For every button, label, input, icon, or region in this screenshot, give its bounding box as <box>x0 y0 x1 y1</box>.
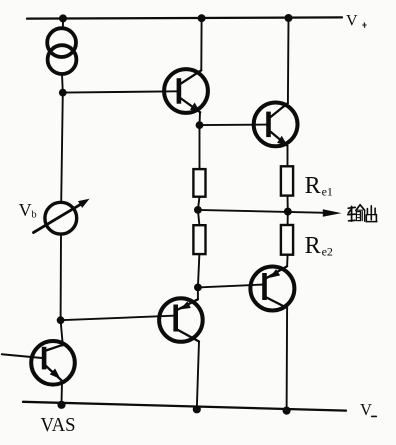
svg-text:e2: e2 <box>322 244 333 258</box>
svg-text:R: R <box>305 173 321 199</box>
node bottom-right junction <box>283 407 291 415</box>
svg-text:V: V <box>346 13 358 30</box>
output arrowhead <box>323 209 342 217</box>
wire node A to Vb <box>61 93 63 203</box>
svg-text:R: R <box>305 233 321 259</box>
resistor Re2 <box>281 225 293 255</box>
svg-text:VAS: VAS <box>41 415 76 436</box>
wire Q1 collector to top rail <box>200 18 202 70</box>
node C <box>196 121 204 129</box>
wire rail to current source <box>62 18 64 28</box>
label V+ <box>346 13 366 30</box>
node bottom-middle junction <box>193 405 201 413</box>
wire bottom rail V- <box>23 402 346 411</box>
wire Re2 to Q4 emitter <box>286 255 289 266</box>
wire output line <box>198 210 326 213</box>
transistor Q3 <box>159 298 203 342</box>
transistor Q4 <box>250 266 294 310</box>
adjustable bias source Vb <box>34 199 90 234</box>
wire Q1 emitter to node C <box>199 112 202 125</box>
wire node B to Q3 base <box>61 316 174 321</box>
wire Q4 collector to bottom rail <box>286 308 289 411</box>
transistor Q2 <box>254 103 298 147</box>
label Re1 <box>305 173 333 199</box>
resistor R1 <box>193 169 205 197</box>
node top-left junction <box>59 14 67 22</box>
transistor VAS <box>2 341 75 405</box>
svg-text:b: b <box>31 210 36 221</box>
svg-text:V: V <box>360 400 372 419</box>
svg-text:V: V <box>19 200 32 220</box>
wire Re1 to node E <box>287 196 289 212</box>
wire node D to resistor R2 <box>198 210 200 225</box>
node top-right junction <box>285 14 293 22</box>
wire Q3 collector to bottom rail <box>197 342 199 410</box>
svg-text:e1: e1 <box>322 185 333 199</box>
node D <box>194 206 202 214</box>
transistor Q1 <box>164 69 208 113</box>
wire node F to Q4 base <box>198 285 264 288</box>
wire R2 to node F <box>198 254 200 287</box>
wire node B to VAS collector <box>61 320 63 345</box>
node F <box>194 284 202 292</box>
wire node A to Q1 base <box>63 91 178 92</box>
wire Q2 emitter to Re1 <box>287 146 289 167</box>
wire node C to resistor R1 <box>199 125 201 169</box>
wire current source to node A <box>61 74 64 93</box>
node top-middle junction <box>198 14 206 22</box>
node A <box>59 89 67 97</box>
label output 输 <box>348 205 365 221</box>
label output 出 <box>366 206 377 222</box>
node B <box>57 316 65 324</box>
node bottom-left junction <box>57 401 65 409</box>
label V- <box>360 400 376 419</box>
wire node E to Re2 <box>287 212 289 225</box>
wire Re1 top from Q2 <box>281 166 293 195</box>
wire top rail V+ <box>27 17 342 18</box>
label Vb <box>19 200 37 221</box>
label Re2 <box>305 233 333 259</box>
wire Vb to node B <box>60 234 62 320</box>
wire Q2 collector to top rail <box>287 18 290 103</box>
wire node F to Q3 emitter <box>197 287 199 299</box>
wire node C to Q2 base <box>200 124 268 127</box>
node E output <box>284 208 292 216</box>
wire R1 to node D <box>198 197 200 210</box>
resistor R2 <box>193 225 205 254</box>
current source I1 <box>47 28 76 74</box>
